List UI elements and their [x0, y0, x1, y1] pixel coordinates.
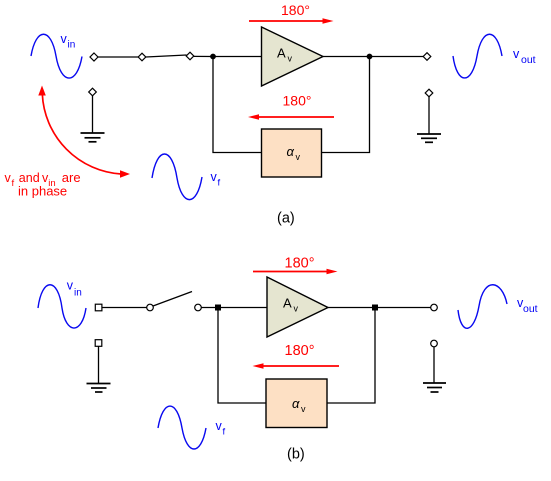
- wire feedback left vertical (b): [218, 308, 266, 404]
- wire switch to node (b): [201, 307, 218, 309]
- ground left (a): [81, 96, 105, 142]
- svg-text:(b): (b): [287, 447, 305, 463]
- junction node B (b): [372, 305, 378, 311]
- source waveform v_in (a): [31, 34, 82, 78]
- wire amplifier to node (b): [328, 307, 375, 309]
- svg-text:v: v: [288, 54, 293, 64]
- svg-text:A: A: [283, 296, 292, 311]
- svg-text:f: f: [12, 178, 15, 189]
- ground right (b): [423, 347, 446, 392]
- source waveform v_in (b): [38, 285, 86, 328]
- svg-text:180°: 180°: [283, 93, 312, 109]
- input terminal (a): [90, 53, 98, 61]
- feedback waveform v_f (b): [158, 406, 206, 449]
- svg-text:A: A: [277, 46, 286, 61]
- wire feedback right vertical (b): [327, 308, 375, 404]
- arrow feedback phase (a): [248, 114, 334, 120]
- feedback network alpha-v (b): [266, 379, 327, 428]
- wire amplifier to node (a): [323, 56, 370, 58]
- svg-text:f: f: [223, 427, 226, 438]
- annotation 180 deg forward (b): [285, 256, 315, 272]
- svg-text:180°: 180°: [285, 343, 315, 359]
- svg-text:α: α: [292, 396, 300, 411]
- svg-text:out: out: [523, 303, 538, 315]
- ground terminal left (b): [95, 340, 102, 347]
- ground right (a): [417, 97, 441, 143]
- switch blade closed (a): [146, 55, 187, 57]
- label v_in (a): [61, 32, 76, 50]
- wire switch to node (a): [194, 55, 213, 57]
- output waveform v_out (a): [453, 34, 502, 78]
- svg-text:in: in: [74, 287, 82, 298]
- label v_f (a): [211, 170, 221, 189]
- svg-text:α: α: [287, 144, 295, 159]
- svg-text:v: v: [301, 404, 306, 414]
- arrow feedback phase (b): [253, 363, 340, 369]
- annotation 180 deg feedback (b): [285, 343, 315, 359]
- switch throw terminal (a): [186, 52, 194, 60]
- svg-text:(a): (a): [277, 211, 295, 227]
- label v_out (b): [517, 296, 538, 315]
- svg-text:in: in: [68, 39, 76, 50]
- ground terminal right (a): [425, 89, 433, 97]
- annotation 180 deg forward (a): [281, 2, 310, 18]
- wire input to switch (b): [102, 307, 147, 309]
- svg-text:180°: 180°: [285, 256, 315, 272]
- label v_f (b): [216, 419, 226, 438]
- output terminal (a): [423, 53, 431, 61]
- wire input to switch (a): [98, 56, 139, 58]
- annotation 180 deg feedback (a): [283, 93, 312, 109]
- curved arrow in-phase annotation: [38, 86, 130, 178]
- svg-text:v: v: [211, 170, 218, 184]
- svg-text:v: v: [513, 47, 520, 61]
- input terminal (b): [95, 304, 102, 311]
- svg-text:v: v: [5, 171, 12, 185]
- switch throw terminal (b): [195, 304, 202, 311]
- svg-text:v: v: [294, 304, 299, 314]
- op-amp Av (b): [267, 277, 328, 337]
- arrow forward phase (a): [249, 18, 334, 24]
- label v_out (a): [513, 47, 536, 66]
- label (b): [287, 447, 305, 463]
- wire node to amplifier (a): [213, 56, 262, 58]
- junction node B (a): [367, 54, 373, 60]
- wire feedback left vertical (a): [213, 57, 262, 153]
- junction node A (a): [210, 54, 216, 60]
- svg-text:f: f: [218, 178, 221, 189]
- feedback waveform v_f (a): [152, 154, 202, 200]
- svg-text:v: v: [216, 419, 223, 433]
- switch blade open (b): [153, 292, 192, 307]
- switch pole terminal (a): [138, 53, 146, 61]
- output waveform v_out (b): [458, 285, 507, 329]
- svg-text:v: v: [296, 152, 301, 162]
- ground left (b): [87, 346, 111, 392]
- svg-text:180°: 180°: [281, 2, 310, 18]
- wire feedback right vertical (a): [322, 57, 370, 153]
- label v_in (b): [67, 279, 82, 299]
- ground terminal right (b): [431, 340, 438, 347]
- junction node A (b): [215, 305, 221, 311]
- annotation vf and vin are in phase: [5, 170, 81, 199]
- switch pole terminal (b): [147, 304, 154, 311]
- arrow forward phase (b): [253, 269, 338, 275]
- wire node to output terminal (a): [370, 56, 425, 58]
- label (a): [277, 211, 295, 227]
- output terminal (b): [431, 304, 438, 311]
- svg-text:v: v: [61, 32, 68, 46]
- ground terminal left (a): [89, 88, 97, 96]
- wire node to output terminal (b): [375, 307, 431, 309]
- op-amp Av (a): [262, 27, 324, 86]
- svg-text:out: out: [521, 54, 536, 66]
- feedback network alpha-v (a): [262, 129, 322, 177]
- wire node to amplifier (b): [218, 307, 267, 309]
- svg-text:in phase: in phase: [18, 184, 67, 199]
- svg-text:v: v: [67, 279, 74, 293]
